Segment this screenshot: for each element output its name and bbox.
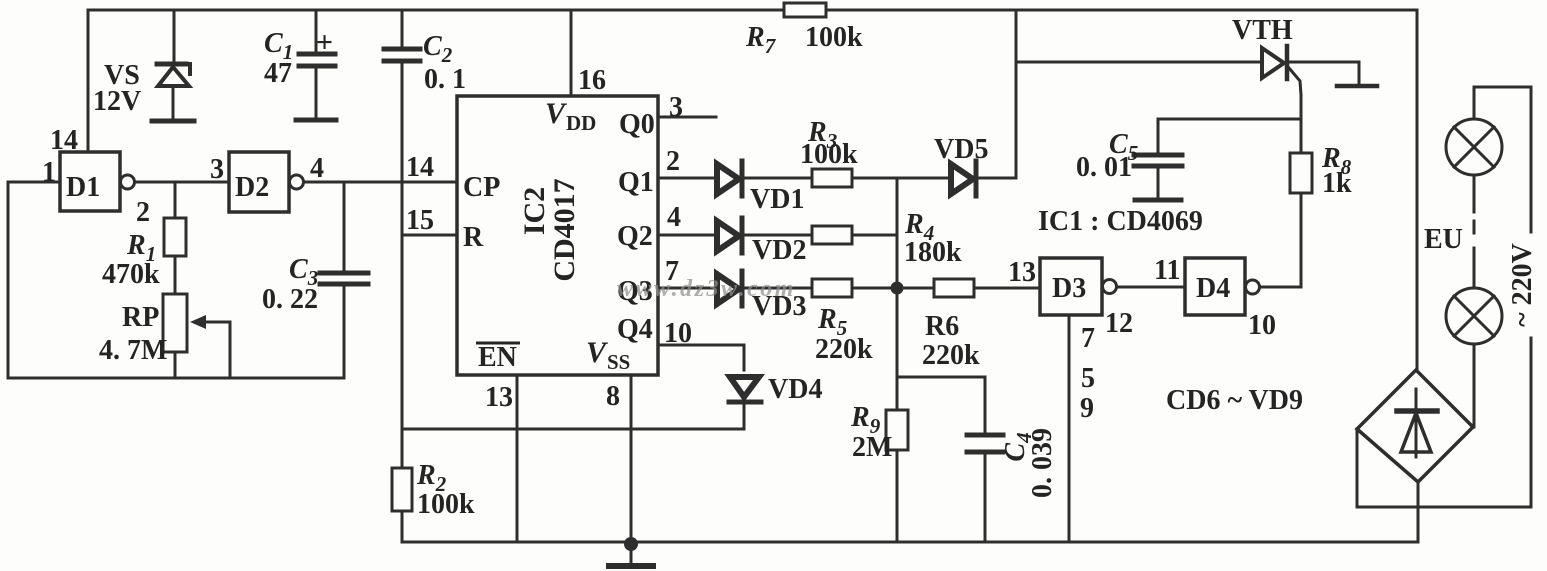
svg-text:2: 2 (666, 146, 680, 177)
wire VD1 to R3 (744, 177, 812, 180)
svg-text:2: 2 (136, 197, 150, 228)
svg-text:11: 11 (1154, 255, 1180, 286)
wire R4 to node (852, 234, 897, 237)
svg-text:16: 16 (578, 65, 606, 96)
wire node to R6 (897, 287, 934, 290)
resistor R7 (784, 3, 826, 17)
svg-text:14: 14 (406, 152, 434, 183)
wire VSS pin down (630, 375, 633, 542)
svg-text:VD5: VD5 (934, 134, 988, 165)
diode VD5 (951, 161, 976, 196)
svg-text:7: 7 (1081, 323, 1095, 354)
wire bridge bottom to rail (1417, 482, 1420, 542)
wire R1 tap (174, 182, 177, 218)
svg-text:13: 13 (1008, 257, 1036, 288)
svg-text:RP: RP (122, 302, 159, 333)
svg-text:~ 220V: ~ 220V (1507, 243, 1538, 327)
wire R pin (402, 234, 457, 237)
svg-text:0. 01: 0. 01 (1076, 152, 1132, 183)
svg-text:3: 3 (210, 154, 224, 185)
wire R6 to D3 (974, 287, 1040, 290)
wire D2 out to CP (304, 181, 457, 184)
capacitor C5 (1134, 119, 1182, 200)
svg-text:Q1: Q1 (618, 167, 654, 198)
wire C4 branch (897, 377, 985, 433)
ground (609, 542, 653, 566)
resistor R6 (934, 279, 974, 297)
chassis bar right of VTH (1337, 84, 1377, 89)
wire Q1 out (658, 177, 716, 180)
svg-text:47: 47 (264, 58, 292, 89)
wire VTH cathode to chassis (1289, 62, 1359, 83)
wire bridge left to 220V return (1357, 429, 1531, 507)
svg-text:12: 12 (1105, 308, 1133, 339)
resistor R8 (1290, 153, 1312, 193)
wire lamp top to 220V (1474, 86, 1531, 89)
svg-text:CD4017: CD4017 (548, 178, 581, 281)
wire D3 out to D4 in (1117, 286, 1185, 289)
wire VS stem top (173, 10, 176, 62)
wire left edge down (7, 182, 10, 378)
svg-text:1: 1 (42, 157, 56, 188)
svg-text:0. 22: 0. 22 (262, 284, 318, 315)
wire gate to R8 (1300, 95, 1303, 153)
inverter D1 (60, 152, 135, 211)
svg-text:2M: 2M (852, 432, 892, 463)
svg-text:0. 1: 0. 1 (424, 64, 466, 95)
svg-text:V: V (545, 97, 568, 130)
wire Q3 out (658, 287, 716, 290)
svg-text:1k: 1k (1322, 168, 1352, 199)
svg-text:Q4: Q4 (617, 314, 653, 345)
svg-text:470k: 470k (102, 259, 160, 290)
diode VD3 (717, 271, 742, 306)
svg-text:CP: CP (463, 172, 500, 203)
svg-text:+: + (316, 26, 333, 59)
zener diode VS (152, 64, 194, 121)
svg-text:Q0: Q0 (619, 109, 655, 140)
ground junction dot (624, 537, 638, 551)
wire 220V line (1530, 87, 1533, 507)
svg-text:EN: EN (478, 342, 517, 373)
svg-text:IC1 : CD4069: IC1 : CD4069 (1038, 206, 1203, 237)
diode VD2 (717, 218, 742, 253)
bottom rail (402, 541, 1418, 544)
svg-text:220k: 220k (922, 340, 980, 371)
wire dashed EU chain (1473, 175, 1476, 288)
svg-text:D3: D3 (1052, 273, 1086, 304)
svg-text:15: 15 (406, 205, 434, 236)
svg-text:5: 5 (1081, 363, 1095, 394)
lamp EL1 (1446, 87, 1502, 175)
svg-text:VD1: VD1 (750, 184, 804, 215)
svg-text:10: 10 (1248, 310, 1276, 341)
svg-text:12V: 12V (93, 86, 141, 117)
node junction dot (891, 282, 904, 295)
svg-text:10: 10 (664, 318, 692, 349)
wire R5 to node (852, 287, 897, 290)
wire Q0 stub (658, 116, 716, 119)
wire D3 ground pins (1068, 315, 1071, 542)
thyristor VTH (1262, 46, 1301, 95)
svg-text:D4: D4 (1196, 273, 1230, 304)
wire top-right drop to bridge (1416, 10, 1419, 370)
wire R3 to VD5 (852, 177, 950, 180)
wire R9 to bottom rail (896, 450, 899, 542)
svg-text:Q2: Q2 (617, 221, 653, 252)
svg-text:14: 14 (50, 125, 78, 156)
svg-text:100k: 100k (805, 22, 863, 53)
wire C2 down through CP/R to R2 (401, 63, 404, 468)
potentiometer RP (163, 294, 230, 378)
wire D1 input from left (8, 181, 60, 184)
wire summing vertical (896, 178, 899, 410)
svg-text:IC2: IC2 (518, 187, 551, 235)
resistor R9 (886, 410, 908, 450)
wire EN pin down (516, 375, 519, 542)
wire VD2 to R4 (744, 234, 812, 237)
svg-text:D2: D2 (235, 172, 269, 203)
capacitor C4 (967, 435, 1003, 542)
svg-text:8: 8 (606, 381, 620, 412)
wire Q4 out (658, 345, 744, 370)
svg-text:13: 13 (485, 382, 513, 413)
inverter D3 (1040, 258, 1117, 315)
svg-text:4: 4 (667, 202, 681, 233)
wire bottom-left (8, 377, 344, 380)
svg-text:100k: 100k (800, 139, 858, 170)
wire VD5 to drop (978, 177, 1016, 180)
svg-text:3: 3 (669, 92, 683, 123)
wire Q2 out (658, 234, 716, 237)
svg-text:VTH: VTH (1232, 15, 1293, 46)
svg-text:9: 9 (1080, 393, 1094, 424)
inverter D2 (229, 152, 304, 212)
svg-text:4. 7M: 4. 7M (99, 335, 167, 366)
wire R8 to D4 out (1300, 193, 1303, 287)
resistor R4 (812, 226, 852, 244)
svg-text:DD: DD (566, 111, 596, 135)
resistor R1 (164, 218, 186, 256)
svg-text:0. 039: 0. 039 (1027, 428, 1058, 498)
capacitor C3 (320, 182, 368, 378)
diode VD1 (717, 161, 742, 196)
wire R1 to RP (174, 256, 177, 294)
svg-text:SS: SS (607, 350, 630, 374)
svg-text:100k: 100k (417, 489, 475, 520)
wire C5 row (1158, 118, 1301, 121)
wire VD3 to R5 (744, 287, 812, 290)
svg-text:CD6 ~ VD9: CD6 ~ VD9 (1166, 385, 1303, 416)
diode VD4 (729, 377, 761, 429)
svg-text:R: R (463, 222, 484, 253)
wire VTH row (1016, 61, 1262, 64)
svg-text:www.dz3w.com: www.dz3w.com (617, 276, 796, 302)
wire IC2 pin16 stem (570, 10, 573, 96)
wire right drop x=1016 (1015, 10, 1018, 178)
resistor R2 (392, 468, 412, 511)
svg-text:EU: EU (1424, 224, 1463, 255)
wire D4 out (1260, 286, 1301, 289)
capacitor C1 (296, 10, 336, 120)
svg-text:R7: R7 (745, 22, 777, 58)
capacitor C2 (384, 10, 420, 61)
inverter D4 (1185, 258, 1260, 315)
lamp EL2 (1446, 288, 1502, 427)
svg-text:R6: R6 (925, 311, 959, 342)
wire top rail (88, 9, 1417, 12)
svg-text:VD2: VD2 (752, 235, 806, 266)
svg-text:220k: 220k (815, 334, 873, 365)
resistor R5 (812, 279, 852, 297)
wire VD4 return (402, 428, 744, 431)
bridge rectifier VD6-VD9 (1357, 370, 1473, 482)
svg-text:VD4: VD4 (768, 374, 822, 405)
svg-text:180k: 180k (904, 237, 962, 268)
svg-text:D1: D1 (66, 172, 100, 203)
resistor R3 (812, 169, 852, 187)
svg-text:4: 4 (310, 153, 324, 184)
wire left drop to D1 pin 14 (87, 10, 90, 152)
IC U1 CD4017 box (457, 96, 658, 375)
wire D1 out to D2 in (135, 181, 229, 184)
wire R2 to bottom rail (401, 511, 404, 542)
svg-text:V: V (586, 336, 609, 369)
svg-text:C2: C2 (423, 31, 453, 67)
